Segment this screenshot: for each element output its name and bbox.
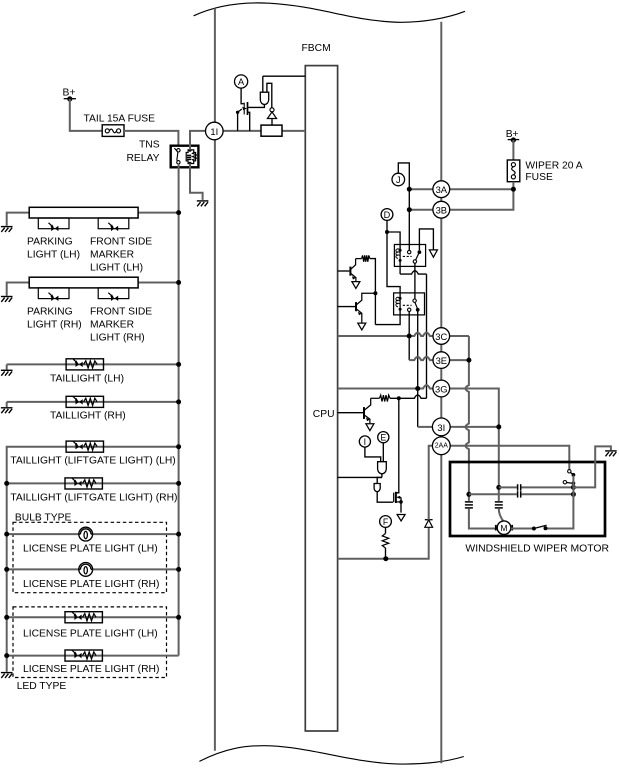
svg-text:LIGHT (RH): LIGHT (RH): [27, 320, 82, 331]
triangle (Q2 emitter): [358, 323, 366, 330]
relay 2 (wiper on/off) box: [394, 293, 425, 315]
svg-text:MARKER: MARKER: [90, 250, 134, 261]
svg-text:LICENSE PLATE LIGHT (RH): LICENSE PLATE LIGHT (RH): [23, 664, 159, 675]
svg-text:LICENSE PLATE LIGHT (LH): LICENSE PLATE LIGHT (LH): [23, 629, 158, 640]
wire capsule top hook to zener: [267, 83, 272, 107]
wire pin 3G to motor: [450, 389, 499, 488]
wire pin 3C to motor (vertical with hops): [450, 335, 469, 337]
svg-text:3I: 3I: [437, 422, 445, 433]
svg-text:TNS: TNS: [139, 140, 160, 151]
wire I to logic capsule: [365, 447, 381, 462]
wire A to MOSFET1 gate: [241, 88, 244, 104]
svg-text:3G: 3G: [435, 383, 448, 394]
ground (wiper motor): [605, 451, 617, 456]
wire pin 2AA to park switch: [450, 446, 569, 470]
svg-text:B+: B+: [63, 88, 76, 99]
wire relay2-NC jog to pin 3E: [409, 357, 433, 360]
wire license plate light (RH, LED) row: [7, 655, 179, 657]
current sense capsule: [260, 92, 268, 104]
motor capacitor lower: [469, 493, 574, 495]
pin 3E: [433, 352, 450, 369]
wire driver block to CPU rect: [282, 130, 305, 132]
svg-text:1I: 1I: [210, 126, 218, 137]
ground (taillight LH): [1, 370, 13, 375]
resistor Q3 collector: [371, 397, 380, 399]
front side marker light (RH) bulb box: [98, 288, 129, 299]
ground (parking light LH): [1, 227, 13, 232]
motor M: [497, 521, 511, 535]
wire CPU to Q1 base: [338, 270, 350, 272]
bulb type dashed box: [13, 522, 167, 592]
svg-text:TAILLIGHT (LH): TAILLIGHT (LH): [50, 373, 124, 384]
svg-text:F: F: [383, 517, 389, 527]
pin 2AA: [432, 437, 450, 455]
motor noise bead (right): [498, 487, 500, 501]
FBCM module boundary torn-edge bottom curve: [199, 746, 463, 764]
wire relay 2 coil return to Q1/Q2: [375, 309, 400, 324]
wire E to logic capsule: [382, 443, 384, 462]
relay TNS (box): [171, 146, 199, 168]
FBCM module boundary torn-edge top curve: [194, 3, 465, 22]
transistor Q2: [355, 302, 357, 311]
wire relay2-NO jog to pin 3I: [418, 426, 433, 428]
pin 1I: [206, 122, 224, 140]
svg-text:WIPER 20 A: WIPER 20 A: [525, 160, 582, 171]
svg-text:CPU: CPU: [313, 409, 335, 420]
wire relay 1 NO to B+ triangle: [419, 229, 433, 250]
relay 1 coil: [399, 250, 401, 260]
wire pin 3I stub: [450, 426, 499, 428]
triangle (Q3 emitter): [366, 424, 374, 431]
wire CPU to pin 3C: [338, 333, 434, 336]
fuse WIPER 20 A: [507, 160, 520, 182]
junction dot bead right: [496, 485, 501, 490]
svg-text:3B: 3B: [436, 205, 447, 216]
LED type dashed box: [13, 607, 167, 678]
svg-text:A: A: [238, 77, 245, 87]
svg-text:TAILLIGHT (LIFTGATE LIGHT) (LH: TAILLIGHT (LIFTGATE LIGHT) (LH): [10, 456, 175, 467]
triangle (Q1 emitter): [352, 282, 360, 289]
svg-text:TAILLIGHT (RH): TAILLIGHT (RH): [50, 411, 126, 422]
FBCM module boundary left line: [214, 8, 216, 751]
svg-text:FRONT SIDE: FRONT SIDE: [90, 307, 152, 318]
pin 3I: [432, 418, 450, 436]
FBCM module boundary right line: [440, 22, 442, 764]
node I: [359, 436, 370, 447]
junction dot F resistor: [383, 556, 388, 561]
wire CPU bottom to diode: [338, 527, 429, 558]
svg-text:MARKER: MARKER: [90, 320, 134, 331]
junction dot MOSFET2 source branch: [397, 396, 401, 400]
transistor Q3: [363, 407, 365, 419]
wire CPU to Q2 base: [338, 306, 355, 308]
svg-text:I: I: [364, 437, 366, 447]
taillight liftgate (RH) unit: [65, 478, 102, 489]
motor bottom switch: [511, 528, 534, 530]
junction dot relay2-NO / 3G: [415, 386, 420, 391]
junction dots capacitor right: [571, 485, 576, 490]
wire 1I to output driver: [223, 130, 261, 132]
wire relay 2 NO post to 3G/3I: [417, 312, 419, 427]
license plate light (RH) bulb: [79, 563, 93, 577]
taillight (LH) unit: [66, 359, 103, 370]
node B+ (right battery terminal): [508, 139, 520, 141]
wire sense top to CPU rect: [263, 75, 306, 77]
zener monitor (circle + triangle): [270, 108, 274, 112]
relay 1 contact: [408, 250, 411, 253]
junction dot 3G/3I: [496, 424, 501, 429]
taillight liftgate (LH) unit: [66, 441, 103, 452]
triangle feed (relay 1 NO): [429, 250, 437, 257]
wire relay 1 common out to relay 2: [414, 263, 416, 299]
transistor MOSFET1 (high-side output FET): [243, 103, 245, 115]
transistor Q1: [349, 267, 351, 276]
ground (TNS relay): [197, 201, 209, 206]
svg-text:M: M: [500, 523, 507, 533]
wire taillight (LH) row: [7, 363, 179, 365]
wire D to relay coils: [387, 220, 400, 298]
svg-text:RELAY: RELAY: [127, 153, 160, 164]
TNS relay contact: [177, 149, 180, 152]
FBCM internal block (CPU rectangle): [305, 66, 337, 731]
logic capsule 1: [378, 462, 387, 474]
wire taillight (RH) row: [7, 401, 179, 403]
svg-text:LICENSE PLATE LIGHT (RH): LICENSE PLATE LIGHT (RH): [23, 579, 159, 590]
wire TNS relay output lights bus: [178, 164, 180, 656]
motor capacitor upper: [499, 486, 574, 488]
node D: [381, 209, 393, 221]
transistor MOSFET2 (washer output FET): [393, 493, 395, 503]
node F: [380, 516, 392, 528]
relay 2 contact: [413, 299, 416, 302]
svg-text:LED TYPE: LED TYPE: [17, 681, 67, 692]
ground (liftgate/license lights): [1, 673, 13, 678]
ground (parking light RH): [1, 297, 13, 302]
junction dot relay2-NC / 3C: [407, 334, 412, 339]
svg-text:FRONT SIDE: FRONT SIDE: [90, 237, 152, 248]
windshield wiper motor box: [450, 462, 605, 536]
wire capsule 2 to MOSFET2 gate: [377, 492, 393, 503]
license plate light (LH) bulb: [79, 527, 93, 541]
wire WIPER fuse to pins 3A/3B: [450, 182, 514, 210]
wire B+ to TAIL fuse: [70, 99, 102, 131]
svg-text:3A: 3A: [436, 184, 448, 195]
wire pin 3B to J-line: [409, 209, 433, 211]
fuse TAIL 15A: [102, 125, 124, 137]
park switch (top): [568, 470, 571, 473]
wire license plate light (LH, bulb) row: [7, 533, 179, 535]
wire pin 3A to J-line: [409, 188, 433, 190]
junction dots left liftgate bus: [4, 481, 9, 486]
svg-text:PARKING: PARKING: [27, 307, 73, 318]
pin 3B: [433, 201, 450, 218]
relay 1 (wiper hi/lo) box: [394, 245, 425, 267]
driver block rectangle: [261, 125, 282, 136]
svg-text:3C: 3C: [435, 331, 447, 342]
svg-text:TAILLIGHT (LIFTGATE LIGHT) (RH: TAILLIGHT (LIFTGATE LIGHT) (RH): [10, 493, 177, 504]
junction dot D branch: [385, 230, 389, 234]
svg-text:FUSE: FUSE: [525, 172, 553, 183]
svg-text:WINDSHIELD WIPER MOTOR: WINDSHIELD WIPER MOTOR: [465, 544, 609, 555]
wire TAIL fuse to TNS relay contact: [124, 131, 178, 149]
parking light (RH) bulb box: [38, 288, 69, 299]
svg-text:LIGHT (LH): LIGHT (LH): [27, 250, 80, 261]
wire parking light (RH) row: [7, 283, 30, 296]
node J: [392, 173, 405, 186]
node B+ (left battery terminal): [64, 98, 76, 100]
junction dot bead left: [466, 492, 471, 497]
parking light (LH) housing: [29, 207, 138, 218]
wire relay 2 NC post to 3C/3E: [408, 312, 410, 361]
svg-text:LIGHT (LH): LIGHT (LH): [90, 263, 143, 274]
node A: [235, 75, 248, 88]
wire TNS coil to ground: [190, 164, 203, 200]
wire CPU to pin 3G: [338, 385, 434, 388]
svg-text:E: E: [380, 433, 386, 443]
wire pin 3E stub: [450, 359, 469, 361]
svg-text:LICENSE PLATE LIGHT (LH): LICENSE PLATE LIGHT (LH): [23, 544, 158, 555]
wire taillight liftgate (RH) row: [7, 482, 179, 484]
wire relay 1 coil return: [400, 260, 426, 398]
junction dot fuse/3A: [511, 187, 516, 192]
wire CPU to Q3 base: [338, 412, 363, 414]
motor noise bead (left): [468, 494, 470, 501]
parking light (RH) housing: [29, 277, 138, 288]
wire diode to pin 2AA: [429, 446, 433, 520]
node E: [378, 432, 389, 443]
diode to 2AA: [425, 520, 433, 527]
wire CPU to capsule junction: [338, 476, 382, 478]
wire parking light (LH) row: [7, 213, 30, 226]
triangle (MOSFET2 drain): [397, 515, 405, 521]
wire B+ to WIPER fuse: [512, 140, 514, 160]
svg-text:PARKING: PARKING: [27, 237, 73, 248]
svg-text:J: J: [396, 175, 401, 185]
svg-text:LIGHT (RH): LIGHT (RH): [90, 333, 145, 344]
svg-text:B+: B+: [506, 129, 519, 140]
ground (taillight RH): [1, 408, 13, 413]
wire J to relay 1 common: [398, 163, 409, 251]
wire license plate light (RH, bulb) row: [7, 568, 179, 570]
pin 3G: [433, 380, 450, 397]
license plate light (LH) LED unit: [65, 612, 102, 623]
svg-text:FBCM: FBCM: [302, 43, 331, 54]
wire Q3 resistor to relay1-return and MOSFET2: [390, 395, 427, 398]
taillight (RH) unit: [66, 396, 103, 407]
resistor F: [385, 527, 387, 533]
license plate light (RH) LED unit: [65, 650, 102, 661]
junction dot Q2 collector: [373, 291, 377, 295]
svg-text:2AA: 2AA: [435, 443, 448, 450]
junction dots lights bus: [176, 210, 181, 215]
resistor Q1 collector: [356, 258, 362, 260]
wire park switch to motor bottom: [546, 476, 574, 529]
logic capsule 2: [374, 484, 380, 492]
svg-text:TAIL 15A FUSE: TAIL 15A FUSE: [84, 114, 156, 125]
wire taillight liftgate (LH) row + left bus: [7, 447, 179, 672]
svg-text:D: D: [384, 210, 391, 220]
wire TNS coil to pin 1I: [190, 131, 206, 150]
svg-text:3E: 3E: [436, 355, 447, 366]
front side marker light (LH) bulb box: [98, 218, 129, 229]
TNS relay coil: [186, 150, 195, 164]
wire license plate light (LH, LED) row: [7, 616, 179, 618]
relay 2 coil: [399, 298, 401, 309]
pin 3C: [433, 328, 450, 345]
junction dot 3E: [466, 358, 471, 363]
junction dots on J-line: [407, 187, 412, 192]
wire motor box to ground: [573, 446, 611, 487]
parking light (LH) bulb box: [38, 218, 69, 229]
pin 3A: [433, 181, 450, 198]
